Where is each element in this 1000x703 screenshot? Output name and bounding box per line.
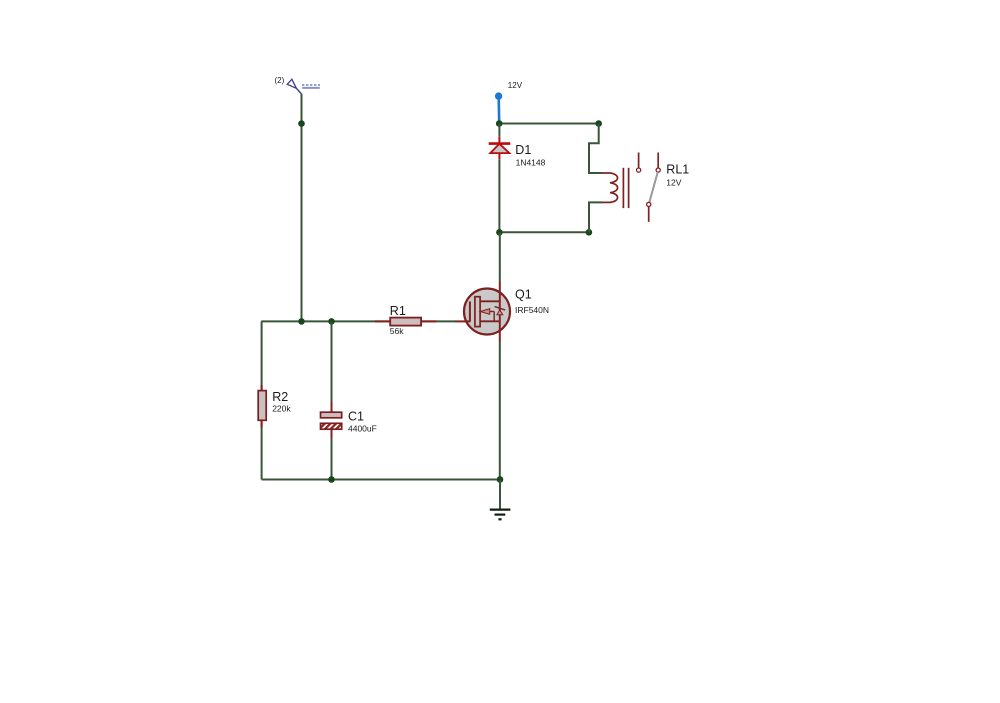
- wire: C1 branch vertical bottom: [331, 437, 333, 480]
- junction node at 12V/D1: [496, 120, 503, 127]
- mosfet Q1 body circle: [464, 289, 510, 335]
- power terminal 12V: [497, 97, 500, 124]
- wire: drain node down to Q1: [499, 232, 501, 281]
- terminal symbol triangle: [287, 79, 296, 88]
- diode D1 anode pin: [498, 153, 500, 159]
- mosfet Q1 drain bar: [480, 300, 500, 302]
- svg-text:C1: C1: [348, 410, 364, 424]
- relay coil top pin: [602, 172, 611, 174]
- mosfet Q1 source arrow line: [480, 311, 494, 313]
- svg-text:Q1: Q1: [515, 287, 532, 301]
- resistor R2 body: [258, 391, 266, 421]
- terminal tail line: [296, 88, 301, 94]
- relay switch bottom pin: [648, 207, 650, 222]
- relay switch contact bottom: [647, 202, 651, 206]
- wire: left vertical from terminal down to gate rail: [301, 94, 303, 322]
- junction node at relay bottom corner: [586, 229, 593, 236]
- diode D1 cathode pin: [498, 137, 500, 144]
- relay switch contact right: [656, 168, 660, 172]
- capacitor C1 bottom plate: [321, 423, 342, 429]
- svg-text:(2): (2): [275, 76, 285, 85]
- junction node gate/C1: [328, 318, 335, 325]
- svg-text:RL1: RL1: [666, 162, 689, 176]
- capacitor C1 bottom pin: [331, 429, 333, 437]
- relay switch contact left: [637, 168, 641, 172]
- junction node at drain rail: [496, 229, 503, 236]
- svg-text:220k: 220k: [272, 404, 291, 414]
- relay RL1 coil arcs: [610, 173, 618, 202]
- relay core bar 1: [622, 168, 624, 208]
- svg-text:R1: R1: [390, 304, 406, 318]
- junction node source/bottom rail: [497, 476, 504, 483]
- wire: C1 branch vertical top: [331, 321, 333, 402]
- terminal solid underline: [302, 87, 320, 89]
- wire: bottom rail: [262, 479, 500, 481]
- mosfet Q1 gate electrode: [469, 301, 471, 321]
- terminal dashed line: [302, 84, 320, 86]
- wire: source down to bottom rail: [499, 341, 501, 480]
- wire: relay bottom rail: [499, 231, 589, 233]
- wire: ground drop: [499, 480, 501, 509]
- svg-text:IRF540N: IRF540N: [515, 305, 549, 315]
- wire: relay coil top step: [589, 124, 602, 174]
- mosfet Q1 source arrow head: [480, 309, 489, 315]
- mosfet Q1 source drop: [493, 312, 495, 322]
- svg-text:12V: 12V: [508, 81, 523, 90]
- mosfet Q1 channel rect: [475, 297, 480, 327]
- relay switch arm: [649, 172, 657, 202]
- svg-text:1N4148: 1N4148: [516, 158, 546, 168]
- junction dot on left vertical: [298, 120, 305, 127]
- junction node at relay top corner: [595, 120, 602, 127]
- wire: R2 branch vertical: [261, 321, 263, 479]
- svg-text:12V: 12V: [666, 177, 681, 187]
- wire: D1 to drain node: [498, 159, 500, 232]
- wire: D1 anode/cathode vertical: [498, 124, 500, 137]
- svg-text:4400uF: 4400uF: [348, 423, 377, 433]
- svg-text:D1: D1: [515, 143, 531, 157]
- wire: relay coil bottom L: [589, 202, 602, 232]
- mosfet Q1 gate pin: [455, 320, 471, 322]
- resistor R1 right pin: [421, 320, 436, 322]
- junction node C1/bottom rail: [328, 476, 335, 483]
- svg-text:R2: R2: [272, 390, 288, 404]
- wire: gate rail: [261, 320, 456, 322]
- mosfet Q1 source bar: [480, 320, 500, 322]
- ground bar 3: [498, 518, 501, 520]
- resistor R2 top pin: [261, 385, 263, 391]
- ground bar 2: [495, 513, 506, 515]
- resistor R2 bottom pin: [261, 420, 263, 427]
- mosfet Q1 drain pin vertical: [499, 282, 501, 342]
- junction node gate/left vertical: [298, 318, 305, 325]
- wire: top rail: [499, 123, 599, 125]
- capacitor C1 top plate: [321, 412, 342, 418]
- mosfet Q1 body diode triangle: [497, 310, 503, 315]
- relay switch pin left: [638, 153, 640, 168]
- ground bar 1: [490, 509, 511, 511]
- svg-text:56k: 56k: [390, 326, 404, 336]
- mosfet Q1 body diode bar: [495, 307, 506, 311]
- relay core bar 2: [628, 168, 630, 208]
- diode D1 cathode bar: [489, 142, 511, 145]
- capacitor C1 top pin: [331, 402, 333, 413]
- resistor R1 body: [390, 318, 421, 326]
- relay switch pin right: [657, 153, 659, 168]
- relay coil bottom pin: [602, 201, 611, 203]
- resistor R1 left pin: [375, 320, 390, 322]
- diode D1 triangle: [490, 144, 509, 153]
